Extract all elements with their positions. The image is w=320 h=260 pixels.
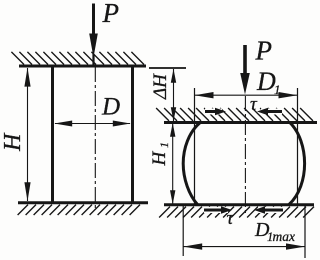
centerline (left figure): [94, 67, 96, 209]
svg-text:H: H: [0, 132, 26, 152]
extension lines D1: [195, 88, 298, 204]
svg-text:D: D: [256, 67, 276, 96]
svg-text:P: P: [102, 0, 120, 28]
label D (left): [101, 94, 120, 121]
svg-text:D: D: [101, 94, 120, 121]
friction arrow tau top-right: [257, 108, 282, 116]
dimension H1: [170, 123, 175, 205]
friction arrow tau bottom-right: [254, 206, 283, 214]
label Delta-H (rotated): [150, 73, 171, 100]
label D1: [256, 67, 281, 97]
svg-text:H: H: [149, 151, 170, 167]
barreled specimen outline: [183, 123, 304, 205]
centerline (right figure): [244, 96, 246, 216]
top platen (right figure): [156, 108, 317, 123]
friction arrow tau bottom-left: [204, 206, 232, 214]
label tau (top): [250, 94, 258, 115]
label D1max: [254, 219, 295, 244]
label tau (bottom): [227, 208, 235, 229]
label P (right): [255, 36, 273, 66]
label H (left, rotated): [0, 132, 26, 152]
svg-text:τ: τ: [250, 94, 258, 115]
cylinder specimen walls (left figure): [53, 66, 133, 203]
bottom platen (right figure): [159, 205, 314, 218]
svg-text:ΔH: ΔH: [150, 73, 171, 100]
svg-text:max: max: [273, 229, 296, 244]
force arrow P (right): [240, 45, 250, 95]
dimension D1: [195, 92, 298, 98]
force arrow P (left): [89, 4, 98, 66]
svg-text:P: P: [255, 36, 273, 66]
label H1 (rotated): [149, 142, 171, 167]
friction arrow tau top-left: [205, 108, 226, 116]
top platen (left figure): [11, 52, 146, 66]
dimension D (left): [54, 121, 131, 127]
svg-text:1: 1: [274, 82, 281, 97]
dimension H (left): [24, 68, 30, 202]
svg-text:1: 1: [157, 142, 171, 148]
original height reference tick: [149, 67, 186, 69]
svg-text:τ: τ: [227, 208, 235, 229]
label P (left): [102, 0, 120, 28]
dimension Delta-H: [171, 69, 176, 121]
dimension D1max: [183, 243, 305, 249]
extension lines D1max: [183, 205, 305, 258]
bottom platen (left figure): [18, 203, 148, 215]
